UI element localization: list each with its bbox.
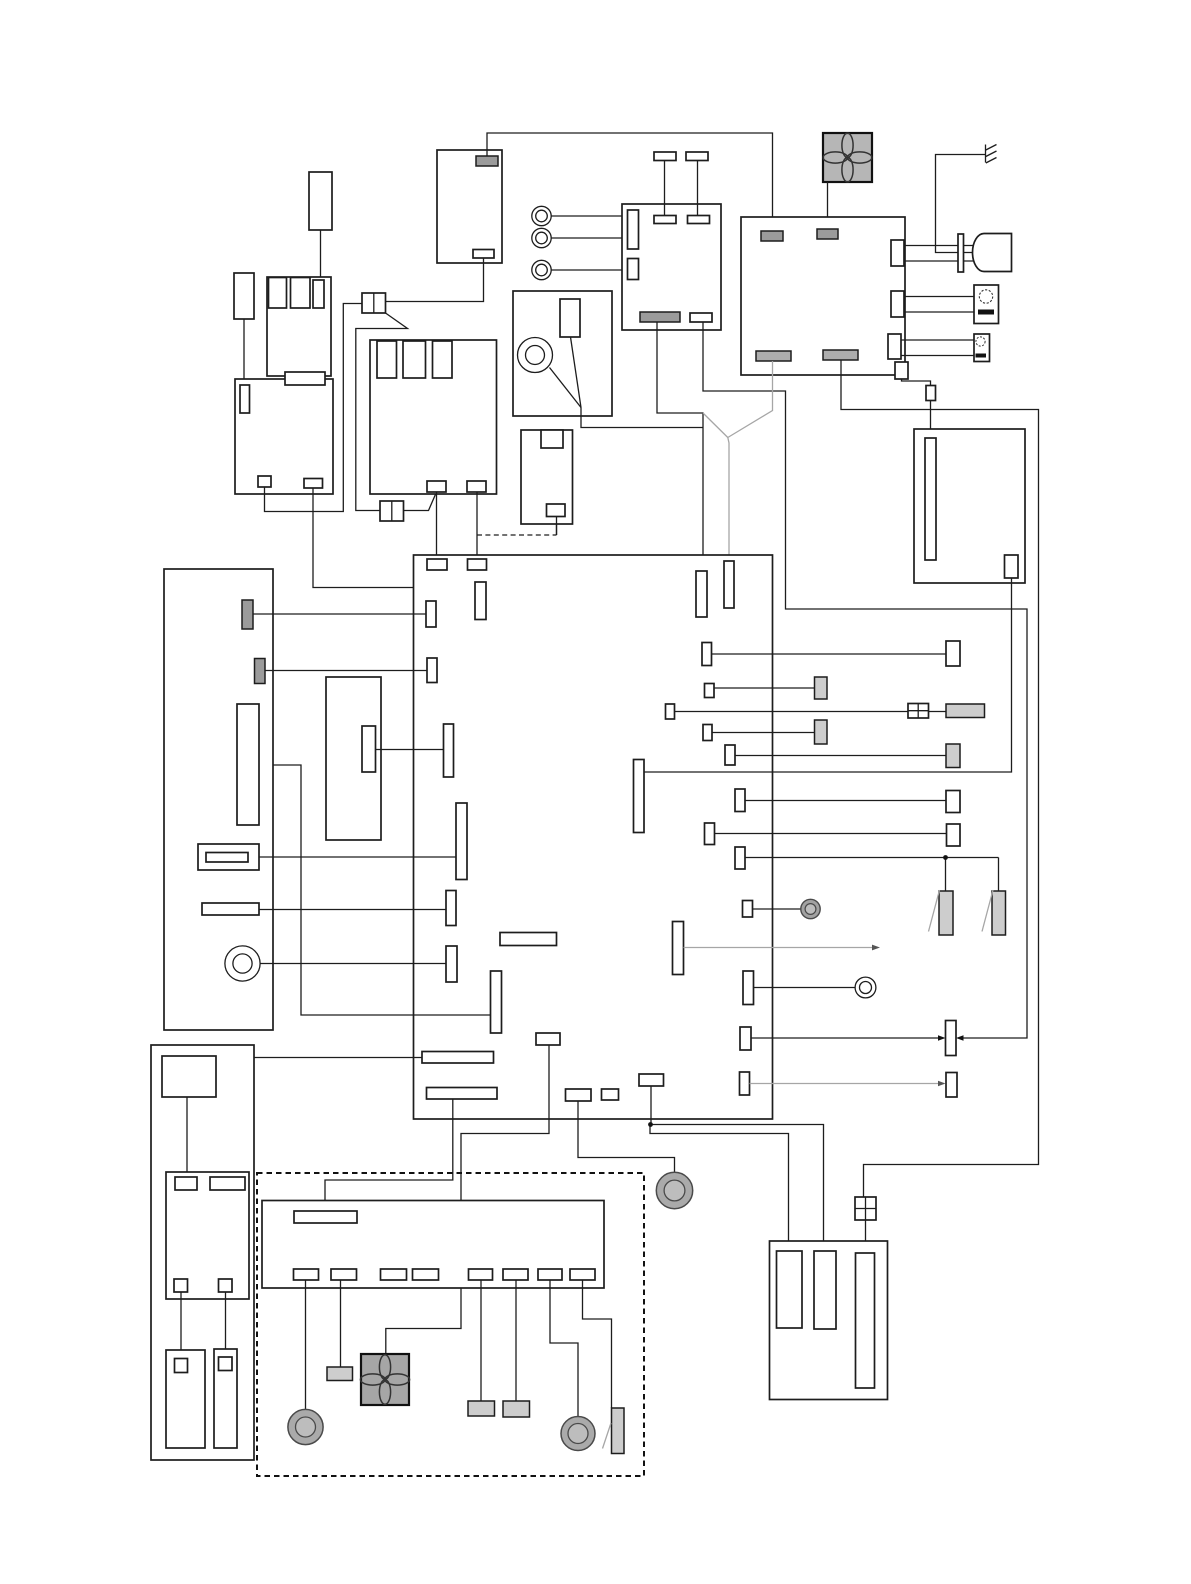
wire — [243, 319, 245, 386]
wire — [186, 1097, 188, 1177]
wire — [265, 670, 427, 672]
wire — [480, 1280, 482, 1401]
connector A9-4 — [413, 1269, 439, 1280]
terminal Xb (gray) — [815, 677, 828, 699]
wire — [901, 355, 974, 357]
wire (gray to fuse) — [728, 438, 729, 562]
wire — [712, 653, 947, 655]
module A5 (small board below timer) — [521, 430, 573, 524]
connector A8-bot2 — [602, 1089, 619, 1100]
tick — [982, 890, 993, 932]
junction — [648, 1122, 653, 1127]
wire (gray arrow) — [684, 945, 881, 951]
wire — [664, 161, 666, 216]
wire — [313, 488, 475, 588]
connector P1 — [475, 582, 486, 620]
timer T1 box — [513, 291, 612, 416]
wire — [745, 800, 946, 802]
connector Xg — [946, 791, 960, 813]
wire — [578, 1101, 675, 1172]
lower-left outer box LB2 — [151, 1045, 254, 1460]
connector A5-top — [541, 430, 563, 448]
wire — [904, 311, 974, 313]
connector A5-bottom — [547, 504, 566, 517]
capacitor C2 (left small rect) — [234, 273, 254, 319]
fan F2 — [360, 1354, 409, 1405]
connector A4-b1 — [427, 481, 446, 492]
wire (gray drop from A7-b1) — [728, 361, 773, 438]
wire (gray branch) — [703, 413, 728, 438]
pump M4 (drain) — [656, 1172, 692, 1208]
wire — [180, 1292, 182, 1359]
wire — [356, 313, 408, 511]
transformer TR1 (inner top box) — [162, 1056, 216, 1097]
fuse holder FH1 — [198, 844, 259, 870]
relay box K2 — [166, 1172, 249, 1299]
module A2 (interference filter box) — [267, 277, 331, 376]
wire (arrow left) — [956, 1035, 964, 1041]
connector Xn — [946, 1073, 957, 1098]
motor symbol (timer dial circles) — [518, 338, 553, 373]
wire — [901, 339, 974, 341]
sensor NTC3 (gray) — [612, 1408, 625, 1454]
connector A3-top — [240, 385, 250, 413]
wire — [754, 987, 856, 989]
wire — [386, 258, 484, 302]
capacitor C6 (tall rect) — [237, 704, 259, 825]
module A1 (display board) — [437, 150, 502, 263]
connector Re — [725, 745, 735, 765]
wire — [551, 237, 627, 239]
tick — [603, 1423, 612, 1449]
wire — [226, 1058, 423, 1178]
connector A4-t2 — [403, 341, 426, 378]
wire — [583, 1280, 612, 1408]
connector B1-1 — [777, 1251, 803, 1328]
wire — [902, 379, 931, 386]
connector P10 (long) — [427, 1088, 498, 1100]
fuse FU3 — [926, 386, 936, 401]
connector A9-8 — [570, 1269, 595, 1280]
connector CB1 (4-way) — [908, 704, 929, 719]
terminal Xd (gray) — [815, 720, 828, 744]
connector A2-3 — [313, 280, 324, 308]
door module A9 — [262, 1201, 604, 1289]
connector Rc — [666, 704, 675, 719]
terminal Xs (gray) — [503, 1401, 530, 1417]
switch S2 — [974, 334, 990, 362]
jumper J1 (mid long rect) — [500, 933, 557, 946]
connector P7 — [446, 946, 457, 982]
connector A9-3 — [381, 1269, 407, 1280]
module A3 (power filter box) — [235, 379, 333, 494]
pressure switch box B1 — [770, 1241, 888, 1400]
connector A6-L2 — [628, 259, 639, 280]
connector A9-7 — [538, 1269, 562, 1280]
wire — [930, 401, 932, 439]
connector K2-t2 — [210, 1177, 245, 1190]
tick — [929, 890, 940, 932]
wire — [865, 1220, 867, 1253]
connector Ri — [735, 847, 745, 869]
capacitor C1 (top-left tall rect) — [309, 172, 332, 230]
connector A8-bot3 — [639, 1074, 664, 1086]
wire — [305, 1280, 307, 1410]
module A4 (power board) — [370, 340, 497, 494]
connector A4-t1 — [377, 341, 397, 378]
connector P3 — [427, 658, 437, 683]
connector Ra — [702, 643, 712, 666]
wire — [745, 858, 999, 892]
wire (gray arrow right) — [750, 1081, 946, 1087]
dashed enclosure (door assembly) — [257, 1173, 644, 1476]
wire — [476, 492, 478, 559]
connector A6-b2 — [690, 313, 712, 322]
ground — [986, 145, 997, 164]
connector B1-2 — [814, 1251, 836, 1329]
switch S1 (door interlock) — [974, 285, 999, 324]
connector Xm — [946, 1021, 957, 1056]
motor M1 — [973, 234, 1012, 272]
connector P2 — [426, 601, 436, 627]
resistor R2 — [202, 903, 259, 915]
fan F1 — [823, 133, 872, 182]
connector K2-b1 — [174, 1279, 188, 1292]
connector Xh — [947, 824, 961, 846]
connector A2-1 — [269, 278, 287, 309]
connector A7-b2 (gray) — [823, 350, 858, 360]
wire — [753, 908, 802, 910]
connector A8-top1 — [427, 559, 447, 570]
relay K0 (rect inside timer) — [560, 299, 580, 337]
connector A7-t2 (gray) — [817, 229, 838, 239]
wire — [386, 1045, 549, 1354]
wire — [904, 245, 974, 247]
wire — [259, 765, 491, 1015]
connector K2-b2 — [219, 1279, 233, 1292]
connector A7-r4 — [895, 362, 908, 379]
connector K1-out — [362, 726, 376, 772]
terminal Xq (gray) — [327, 1367, 353, 1381]
terminal ring X1 — [532, 206, 551, 225]
wire (dashed link) — [477, 534, 557, 536]
connector A4-t3 — [433, 341, 453, 378]
connector A8-top2 — [468, 559, 487, 570]
wire — [551, 269, 627, 271]
wire (arrow right) — [751, 1035, 946, 1041]
connector K2-t1 — [175, 1177, 197, 1190]
grommet G1 — [801, 899, 820, 918]
wire — [644, 578, 1012, 772]
wire — [571, 337, 582, 408]
element E4 (tall box 1) — [166, 1350, 205, 1448]
connector E2 (2-pole) — [380, 501, 404, 521]
connector A7-r2 — [891, 291, 904, 317]
wire — [904, 296, 974, 298]
terminal ring X2 — [532, 228, 551, 247]
wire — [714, 687, 815, 689]
connector A9-5 — [469, 1269, 493, 1280]
wire — [650, 1086, 824, 1251]
wire (A7-b2 loop) — [841, 360, 1039, 1197]
connector A3-b2 — [304, 479, 323, 489]
wire — [260, 963, 446, 965]
terminal ring X3 — [532, 260, 551, 279]
wire — [325, 1099, 453, 1211]
wire — [715, 833, 947, 835]
connector Rb — [705, 684, 715, 698]
connector A6-b1 (gray) — [640, 312, 680, 322]
connector P11 — [536, 1033, 560, 1045]
wire — [550, 368, 582, 408]
connector CB2 (4-way) — [855, 1197, 876, 1220]
connector P4 — [444, 724, 454, 777]
pump M2 — [288, 1409, 323, 1444]
connector Xa — [946, 641, 960, 666]
sensor NTC2 (gray) — [992, 891, 1006, 935]
sensor NTC1 (gray) — [939, 891, 953, 935]
wire — [265, 304, 363, 512]
capacitor C5 (motor run bar) — [958, 234, 964, 272]
module A7 (main relay board, top right) — [741, 217, 905, 375]
pump M3 — [561, 1417, 595, 1451]
wire — [657, 322, 703, 571]
connector A8-bot1 — [566, 1089, 592, 1101]
terminal ring X4 — [855, 977, 876, 998]
wire (ground lead) — [936, 155, 986, 253]
wire — [550, 1280, 578, 1417]
module A6 (selector board) — [622, 204, 721, 330]
connector Rf — [634, 760, 645, 833]
wire — [253, 613, 426, 615]
connector Rg — [735, 789, 745, 812]
connector A7-b1 (gray) — [756, 351, 791, 361]
wire — [697, 161, 699, 216]
wire — [259, 856, 456, 858]
terminal Xr (gray) — [468, 1401, 495, 1416]
wire — [225, 1292, 227, 1357]
connector A7-r3 — [888, 334, 901, 359]
connector Rl — [743, 971, 754, 1005]
wire — [703, 322, 1027, 1038]
wire — [675, 711, 947, 713]
connector A6-t2 — [688, 216, 710, 224]
connector Rh — [705, 823, 715, 845]
connector A9-2 — [331, 1269, 357, 1280]
wire — [487, 133, 773, 231]
wire — [827, 182, 829, 229]
connector P5 — [456, 803, 467, 880]
connector A6-t1 — [654, 216, 676, 224]
connector Rj — [743, 901, 753, 918]
connector A2-2 — [291, 278, 311, 309]
terminal Xc (gray) — [946, 704, 985, 718]
left panel LB — [164, 569, 273, 1030]
connector A9-6 — [503, 1269, 528, 1280]
connector A7-t1 (gray) — [761, 231, 783, 241]
main board A8 — [414, 555, 773, 1119]
fuse FU1 — [696, 571, 707, 617]
capacitor C3 — [654, 152, 676, 161]
connector A3-b1 — [258, 476, 271, 487]
wire — [376, 749, 444, 751]
wire — [904, 260, 974, 262]
buzzer BZ1 — [225, 946, 260, 981]
junction — [943, 855, 948, 860]
wire — [556, 517, 558, 536]
capacitor C4 — [686, 152, 708, 161]
connector Rd — [703, 725, 712, 741]
resistor R1 (long rect between A2 and A3) — [285, 372, 325, 385]
wire — [735, 755, 946, 757]
connector A1-top (gray) — [476, 156, 498, 166]
connector LB-2 (gray) — [255, 659, 266, 684]
wire — [712, 732, 815, 734]
connector P9 (long) — [422, 1052, 494, 1064]
terminal Xe (gray) — [946, 744, 960, 768]
element E5 (tall box 2) — [214, 1349, 237, 1448]
wire — [340, 1280, 342, 1367]
wire — [436, 492, 438, 559]
heater box E3 — [914, 429, 1025, 583]
connector Rm — [740, 1027, 751, 1050]
wire — [404, 492, 437, 511]
connector Rk — [673, 922, 684, 975]
relay block K1 — [326, 677, 381, 840]
wire — [551, 215, 627, 217]
connector E3-out — [1005, 555, 1019, 578]
wire — [320, 230, 322, 280]
wire — [259, 909, 446, 911]
connector A9-top — [294, 1211, 357, 1223]
connector LB-1 (gray) — [242, 600, 253, 629]
connector A6-L1 — [628, 210, 639, 249]
connector A1-bottom — [473, 250, 494, 259]
wire — [556, 517, 558, 536]
connector A4-b2 — [467, 481, 486, 492]
connector Rn — [740, 1072, 750, 1095]
connector B1-3 — [856, 1253, 875, 1388]
fuse FU2 — [724, 561, 734, 608]
connector P8 — [491, 971, 502, 1033]
wire — [515, 1280, 517, 1401]
connector A7-r1 — [891, 240, 904, 266]
wire — [581, 408, 703, 428]
connector E1 (2-pole) — [362, 293, 386, 313]
heater element — [925, 438, 936, 560]
connector P6 — [446, 891, 456, 926]
connector A9-1 — [294, 1269, 319, 1280]
